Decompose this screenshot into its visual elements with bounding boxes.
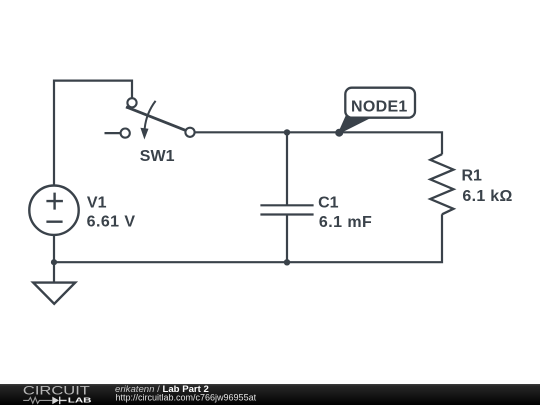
ground bbox=[33, 283, 75, 304]
resistor R1 bbox=[430, 154, 453, 214]
voltage source V1 bbox=[29, 186, 78, 235]
footer logo resistor squiggle bbox=[23, 398, 52, 404]
svg-text:SW1: SW1 bbox=[140, 148, 175, 165]
wire top rail and right rail upper bbox=[193, 132, 442, 154]
node junction dot at V1/ground bbox=[51, 259, 57, 265]
svg-text:6.61 V: 6.61 V bbox=[87, 214, 136, 231]
svg-text:R1: R1 bbox=[462, 168, 483, 185]
capacitor C1 bbox=[260, 205, 313, 214]
junction dot capacitor top bbox=[284, 129, 290, 135]
wire capacitor lower branch bbox=[286, 215, 288, 263]
svg-text:NODE1: NODE1 bbox=[351, 99, 408, 116]
wire left rail with top-left corner to switch bbox=[54, 81, 132, 283]
footer bar bbox=[0, 384, 540, 405]
svg-text:http://circuitlab.com/c766jw96: http://circuitlab.com/c766jw96955at bbox=[116, 393, 257, 403]
wire capacitor upper branch bbox=[286, 132, 288, 205]
svg-text:6.1 mF: 6.1 mF bbox=[319, 214, 372, 231]
node NODE1 callout box bbox=[345, 88, 415, 118]
junction dot capacitor bottom bbox=[284, 259, 290, 265]
svg-text:6.1 kΩ: 6.1 kΩ bbox=[462, 188, 512, 205]
node NODE1 dot bbox=[335, 129, 343, 137]
switch SW1 bbox=[121, 98, 195, 139]
svg-text:V1: V1 bbox=[87, 195, 107, 212]
wire bottom rail and right rail lower bbox=[54, 214, 442, 262]
wire switch left pole stub bbox=[105, 132, 122, 134]
node NODE1 callout tail bbox=[339, 117, 371, 133]
footer logo diode bbox=[52, 397, 59, 405]
svg-text:LAB: LAB bbox=[68, 396, 92, 405]
svg-text:C1: C1 bbox=[318, 195, 339, 212]
